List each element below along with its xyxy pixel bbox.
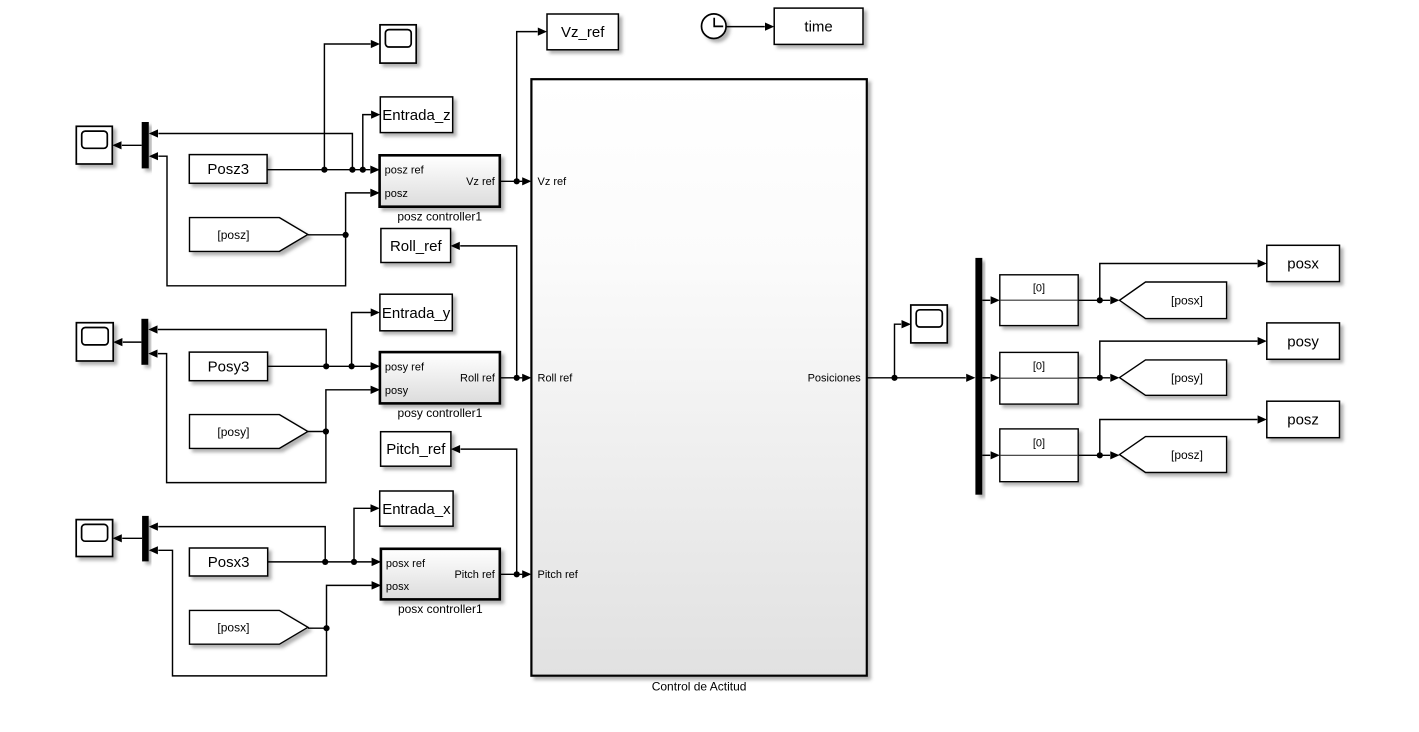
svg-text:Posy3: Posy3 xyxy=(208,359,250,376)
subsystem Control de Actitud xyxy=(531,79,866,693)
subsystem posz controller1 xyxy=(370,155,499,223)
wire posz-controller1 Vz-ref output to Control de Actitud xyxy=(500,177,532,185)
svg-text:Posx3: Posx3 xyxy=(208,554,250,571)
wire junction to outport posy xyxy=(1100,337,1267,378)
svg-text:Roll ref: Roll ref xyxy=(460,373,496,385)
svg-text:posz: posz xyxy=(1287,412,1319,429)
wire posz feedback to mux-z input2 xyxy=(158,156,345,286)
wire [0]-2 to junction xyxy=(1078,374,1119,382)
wire posx feedback to mux-x input2 xyxy=(158,550,326,676)
block [0] IC-2 xyxy=(1000,352,1078,404)
mux Mux-y (vertical bar) xyxy=(141,319,157,365)
outport posz xyxy=(1267,401,1340,438)
scope Scope3 (z group) xyxy=(76,126,121,164)
wire Roll-ref net to Roll_ref tag xyxy=(460,246,517,378)
svg-text:[0]: [0] xyxy=(1033,437,1045,449)
svg-text:posx ref: posx ref xyxy=(386,558,426,570)
svg-text:Entrada_z: Entrada_z xyxy=(382,107,450,124)
mux Mux-z (vertical bar) xyxy=(142,122,158,168)
svg-text:Vz_ref: Vz_ref xyxy=(561,24,605,41)
block [0] IC-3 xyxy=(1000,429,1078,482)
wire [posz] to junction xyxy=(308,232,349,238)
goto tag Entrada_z xyxy=(380,97,452,133)
block Posz3 xyxy=(189,155,267,184)
svg-text:posz ref: posz ref xyxy=(385,165,425,177)
mux Mux-x (vertical bar) xyxy=(142,516,158,562)
goto tag Entrada_y xyxy=(380,294,452,331)
wire Posy3 to posy-controller1 posy-ref port xyxy=(268,362,380,370)
svg-text:[0]: [0] xyxy=(1033,361,1045,373)
wire mux-z to Scope3 xyxy=(122,144,142,146)
goto tag [posx] (right) xyxy=(1120,282,1227,319)
wire branch to Entrada_y xyxy=(352,308,380,366)
svg-text:Roll_ref: Roll_ref xyxy=(390,238,443,255)
wire posy feedback to mux-y input2 xyxy=(158,354,326,483)
svg-text:Entrada_y: Entrada_y xyxy=(382,305,451,322)
svg-text:posx: posx xyxy=(386,581,410,593)
scope Scope2 (Posiciones display) xyxy=(902,305,948,343)
wire Vz-ref net to Vz_ref tag xyxy=(517,32,538,182)
block Posy3 xyxy=(189,352,267,381)
wire demux out1 to [0]-1 xyxy=(982,296,1000,304)
wire Clock to time xyxy=(726,23,774,31)
wire branch to Scope2 xyxy=(895,320,911,378)
wire junction to outport posx xyxy=(1100,259,1267,300)
wire branch to Entrada_x xyxy=(354,504,380,562)
svg-text:posz: posz xyxy=(385,188,408,200)
wire demux out2 to [0]-2 xyxy=(982,374,1000,382)
wire demux out3 to [0]-3 xyxy=(982,451,1000,459)
subsystem posx controller1 xyxy=(372,549,500,616)
goto tag [posz] (right) xyxy=(1120,437,1227,473)
svg-text:posx: posx xyxy=(1287,256,1319,273)
from tag [posy] xyxy=(190,415,308,449)
wire Posx3 to posx-controller1 posx-ref port xyxy=(268,558,381,566)
svg-text:Pitch ref: Pitch ref xyxy=(538,569,579,581)
scope Scope5 (x group) xyxy=(76,520,122,557)
wire posz-ref branch to mux-z input1 xyxy=(158,134,352,170)
wire mux-x to Scope5 xyxy=(122,537,142,539)
svg-text:posy ref: posy ref xyxy=(385,361,425,373)
wire junction to outport posz xyxy=(1100,415,1267,455)
wire posy-ref branch to mux-y input1 xyxy=(158,330,326,367)
scope Scope (posz ref display) xyxy=(371,25,416,63)
goto tag [posy] (right) xyxy=(1120,360,1227,395)
outport posx xyxy=(1267,245,1340,281)
wire [posy] to junction xyxy=(308,428,329,434)
demux Demux (vertical bar) xyxy=(975,258,982,495)
svg-text:Entrada_x: Entrada_x xyxy=(382,501,451,518)
svg-text:posy: posy xyxy=(385,385,409,397)
svg-text:posy: posy xyxy=(1287,333,1319,350)
svg-text:[posz]: [posz] xyxy=(217,228,249,242)
svg-text:[posx]: [posx] xyxy=(217,621,249,635)
wire [posx] to junction xyxy=(308,625,330,631)
wire posx-ref branch to mux-x input1 xyxy=(158,527,325,562)
display time xyxy=(774,8,863,44)
from tag [posz] xyxy=(190,218,308,252)
wire mux-y to Scope4 xyxy=(123,341,142,343)
svg-text:Posz3: Posz3 xyxy=(207,161,249,178)
clock Clock xyxy=(702,14,727,39)
block Posx3 xyxy=(189,548,267,576)
goto tag Roll_ref xyxy=(381,229,460,263)
svg-text:[posx]: [posx] xyxy=(1171,294,1203,308)
goto tag Vz_ref xyxy=(538,14,619,50)
wire posy-controller1 Roll-ref output to Control de Actitud xyxy=(500,374,532,382)
wire posx-controller1 Pitch-ref output to Control de Actitud xyxy=(500,570,532,578)
scope Scope4 (y group) xyxy=(76,323,122,361)
svg-text:posz controller1: posz controller1 xyxy=(397,209,482,223)
svg-text:posx controller1: posx controller1 xyxy=(398,602,483,616)
svg-text:[posy]: [posy] xyxy=(1171,371,1203,385)
wire junction to posy port xyxy=(326,386,380,432)
svg-text:[posy]: [posy] xyxy=(217,425,249,439)
wire [0]-3 to junction xyxy=(1078,451,1119,459)
subsystem posy controller1 xyxy=(371,352,500,420)
svg-text:Vz ref: Vz ref xyxy=(466,176,496,188)
svg-text:Pitch_ref: Pitch_ref xyxy=(386,441,446,458)
goto tag Pitch_ref xyxy=(381,432,461,467)
wire Posiciones to demux xyxy=(867,374,976,382)
wire junction to posx port xyxy=(327,581,381,628)
wire junction to posz port xyxy=(346,189,380,235)
wire Posz3 to posz-controller1 posz-ref port xyxy=(267,166,380,174)
goto tag Entrada_x xyxy=(380,491,453,526)
svg-text:Posiciones: Posiciones xyxy=(808,373,862,385)
outport posy xyxy=(1267,323,1340,359)
block [0] IC-1 xyxy=(1000,275,1078,326)
svg-text:Pitch ref: Pitch ref xyxy=(454,569,495,581)
wire Pitch-ref net to Pitch_ref tag xyxy=(461,449,517,574)
wire [0]-1 to junction xyxy=(1078,296,1119,304)
wire posz-ref to top scope xyxy=(324,44,370,170)
svg-text:[0]: [0] xyxy=(1033,283,1045,295)
svg-text:[posz]: [posz] xyxy=(1171,448,1203,462)
svg-text:Control de Actitud: Control de Actitud xyxy=(652,679,747,693)
svg-text:posy controller1: posy controller1 xyxy=(398,406,483,420)
svg-text:Roll ref: Roll ref xyxy=(538,373,574,385)
from tag [posx] xyxy=(190,610,308,644)
svg-text:Vz ref: Vz ref xyxy=(538,176,568,188)
svg-text:time: time xyxy=(804,19,832,36)
wire branch to Entrada_z xyxy=(363,111,381,170)
